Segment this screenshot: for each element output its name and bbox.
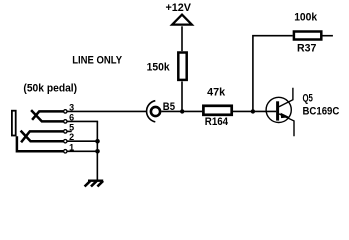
svg-text:Q5: Q5 (303, 93, 313, 105)
svg-text:R37: R37 (297, 43, 316, 55)
svg-text:150k: 150k (147, 62, 171, 74)
svg-text:(50k pedal): (50k pedal) (23, 83, 77, 95)
svg-text:47k: 47k (207, 87, 226, 99)
svg-text:BC169C: BC169C (303, 105, 340, 117)
svg-text:R164: R164 (205, 116, 229, 128)
svg-text:LINE ONLY: LINE ONLY (72, 54, 122, 66)
svg-text:100k: 100k (294, 11, 318, 23)
svg-text:+12V: +12V (166, 2, 192, 14)
